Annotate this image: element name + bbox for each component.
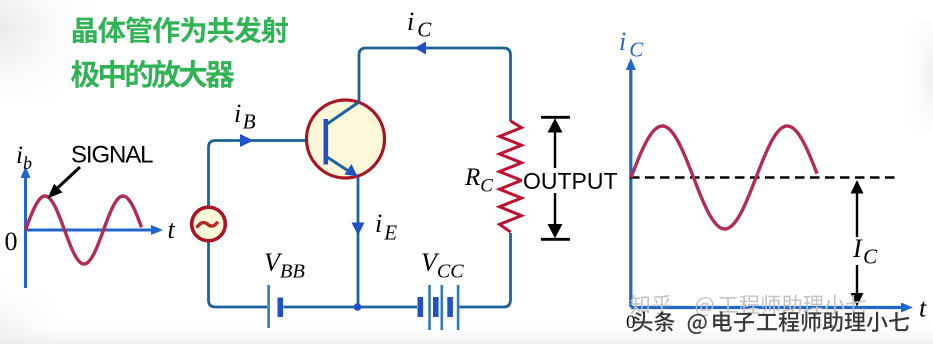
svg-text:t: t [168,215,176,244]
svg-text:t: t [919,294,927,323]
svg-text:0: 0 [5,227,18,256]
svg-text:OUTPUT: OUTPUT [523,168,618,194]
svg-text:SIGNAL: SIGNAL [71,142,153,169]
